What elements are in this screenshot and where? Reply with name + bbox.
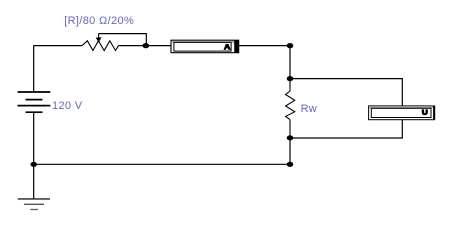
ground — [18, 199, 50, 210]
voltmeter U2 — [369, 106, 436, 120]
potentiometer R1 zigzag — [82, 41, 119, 51]
node junction bottom-right — [287, 162, 294, 167]
wire voltmeter branch bottom — [290, 120, 402, 138]
wire top-left horizontal (battery top to potentiometer) — [34, 45, 82, 47]
battery V1 120 V — [18, 92, 51, 112]
ammeter U1 — [171, 40, 239, 53]
wire Rw bottom to bottom wire — [289, 138, 291, 165]
node junction bottom-left — [30, 162, 37, 167]
wire potentiometer to ammeter — [119, 45, 171, 47]
wire ammeter to top-right corner — [239, 45, 290, 47]
node junction Rw bottom — [287, 135, 294, 140]
svg-text:[R]/80 Ω/20%: [R]/80 Ω/20% — [64, 15, 134, 27]
resistor Rw zigzag — [286, 91, 295, 120]
wire left vertical (corner down to battery top plate) — [33, 45, 35, 92]
node junction wiper tap — [142, 43, 149, 48]
wire wiper tap (up, right, down to junction) — [99, 34, 147, 46]
wire voltmeter branch top — [290, 79, 402, 106]
svg-text:120 V: 120 V — [52, 100, 83, 112]
wire right vertical (top corner to Rw top) — [289, 46, 291, 79]
wire ground tap vertical — [33, 164, 35, 199]
wire battery bottom vertical — [33, 112, 35, 164]
node junction Rw top — [287, 76, 294, 81]
potentiometer wiper arrow — [98, 34, 100, 40]
svg-text:Rw: Rw — [301, 103, 317, 115]
wire bottom horizontal — [34, 163, 290, 165]
wire Rw bottom lead — [289, 120, 291, 138]
wire Rw top lead — [289, 79, 291, 91]
node junction top-right — [287, 43, 294, 48]
